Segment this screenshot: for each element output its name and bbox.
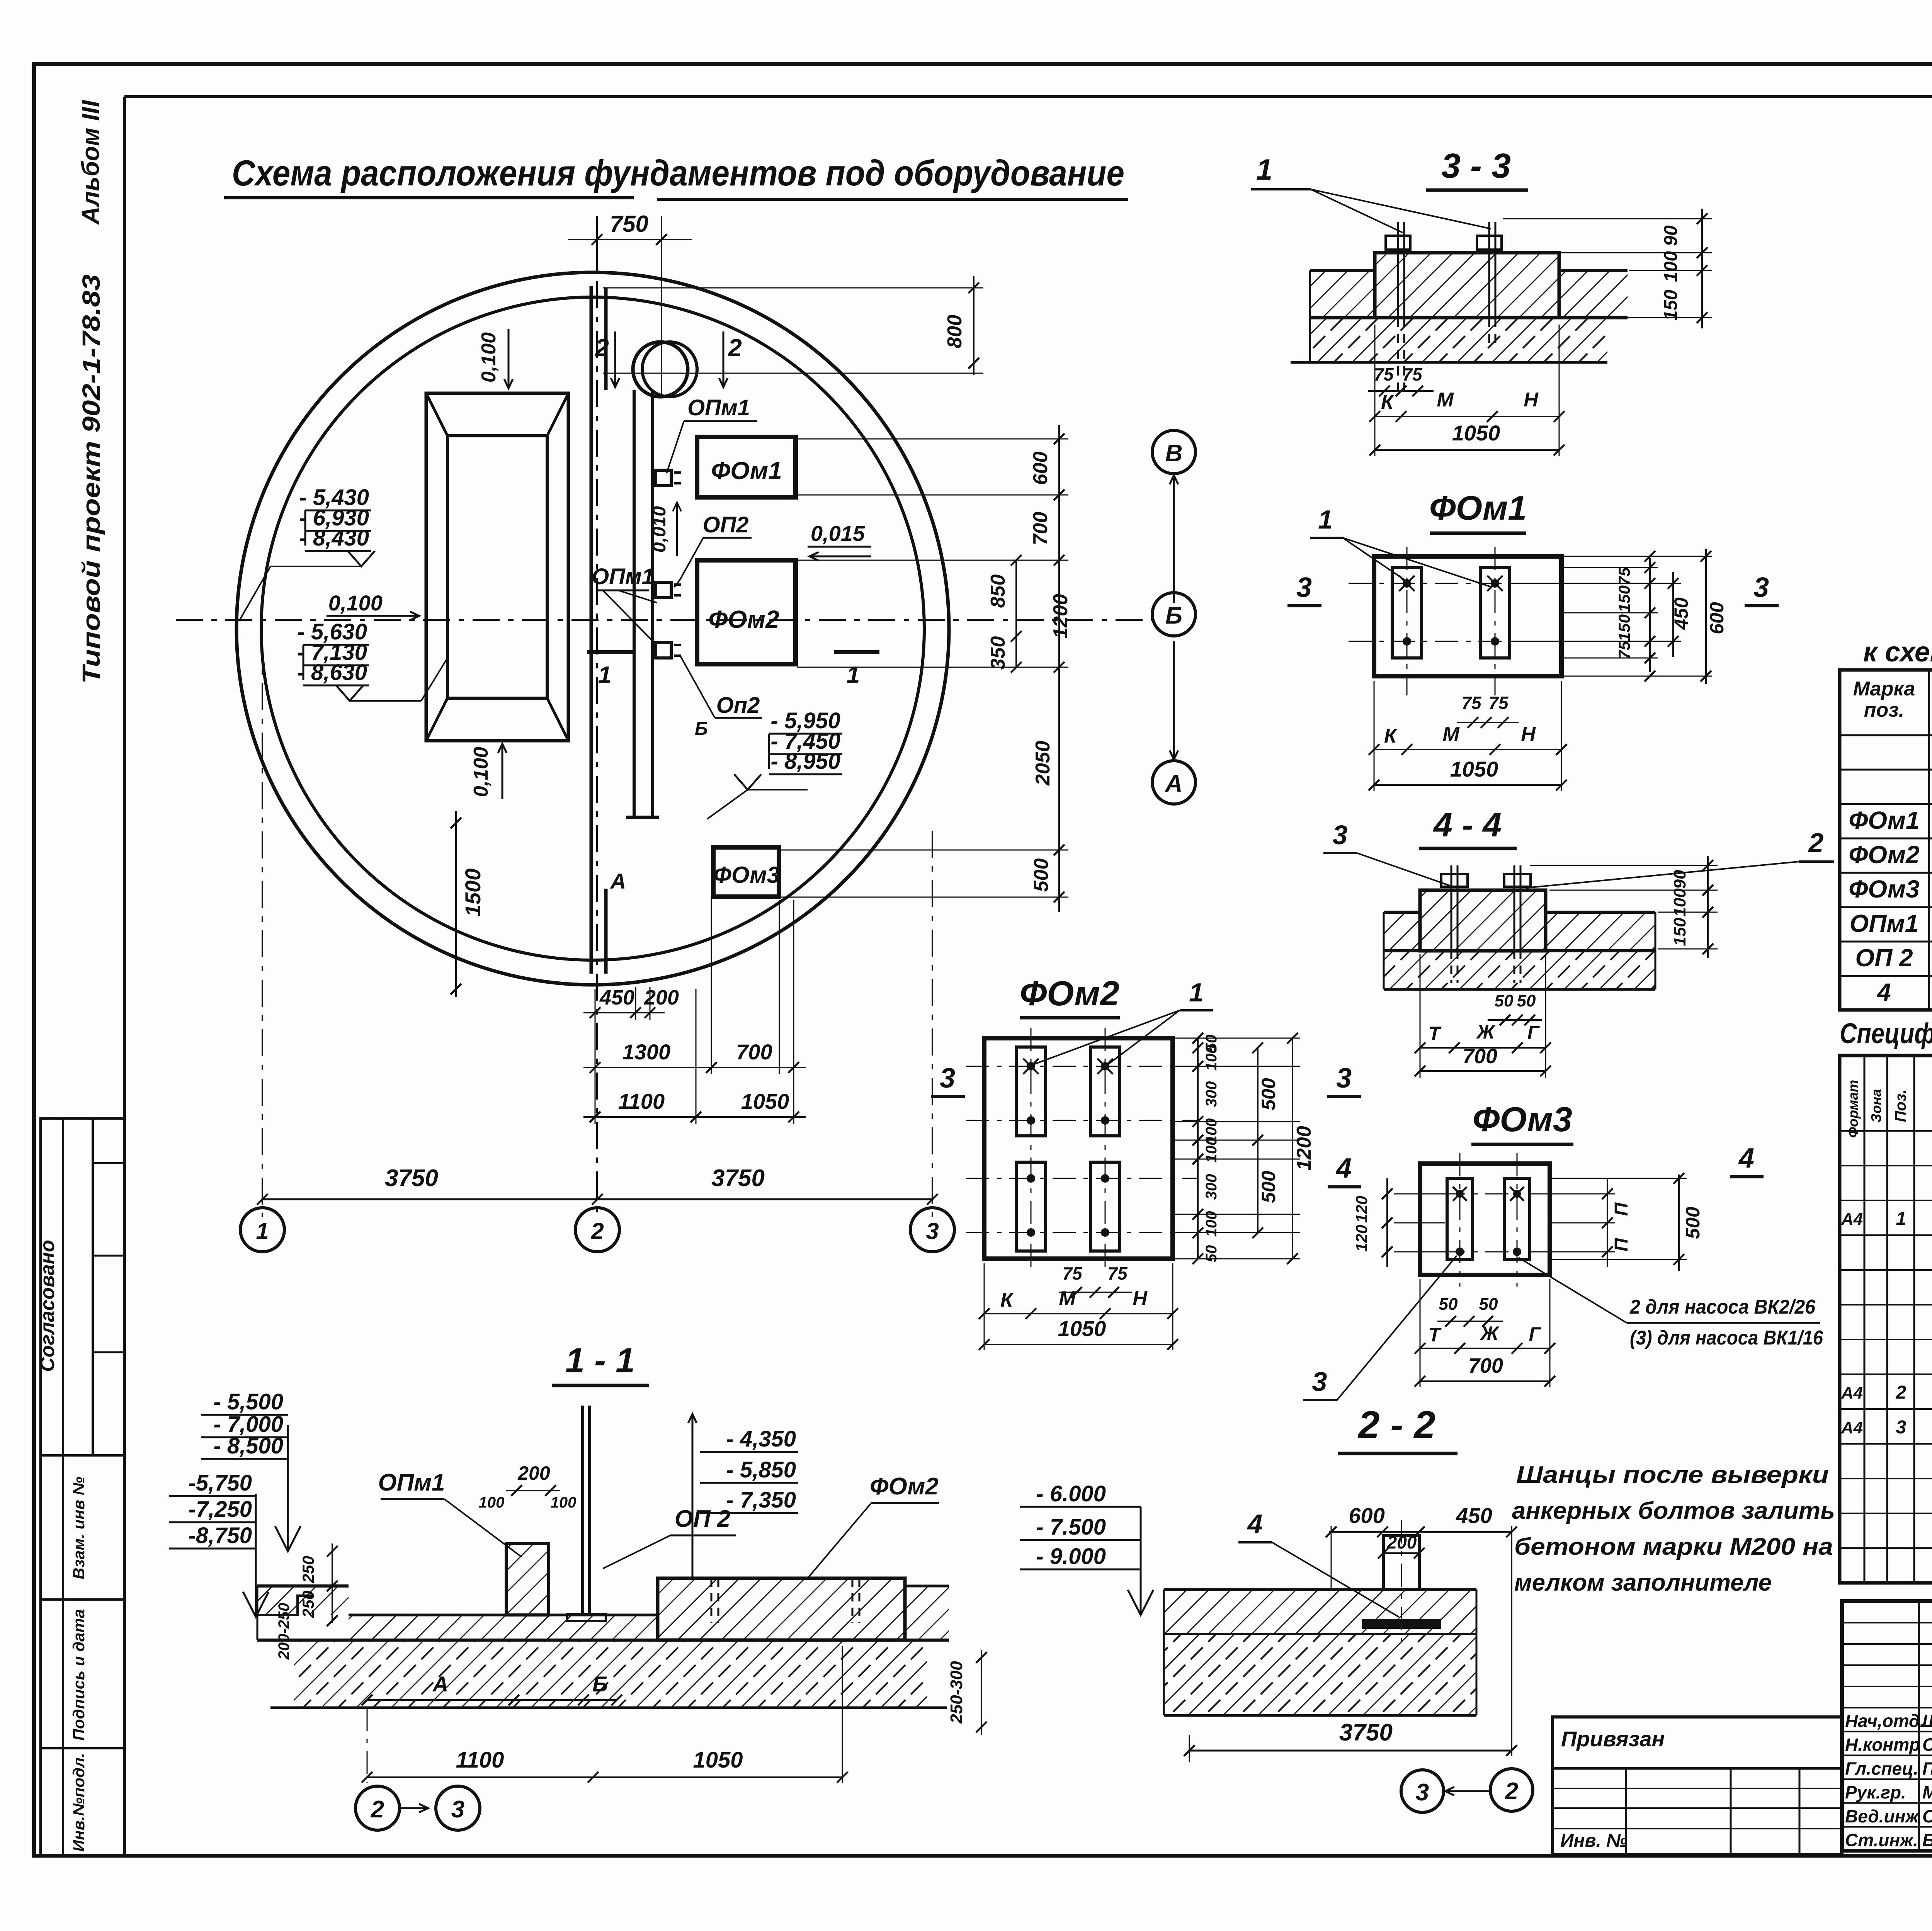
stamp left columns <box>1918 1601 1920 1851</box>
svg-text:150: 150 <box>1661 290 1681 321</box>
stamp frame <box>1842 1601 1932 1851</box>
svg-text:ОПм1: ОПм1 <box>592 564 654 589</box>
svg-text:Марка: Марка <box>1853 678 1915 700</box>
svg-text:0,015: 0,015 <box>811 521 865 546</box>
svg-text:1050: 1050 <box>741 1089 789 1113</box>
svg-text:ФОм1: ФОм1 <box>1849 806 1919 834</box>
svg-text:75: 75 <box>1062 1263 1083 1283</box>
svg-text:200: 200 <box>1387 1532 1417 1552</box>
svg-text:Болотинская: Болотинская <box>1922 1830 1932 1850</box>
svg-text:Б: Б <box>1165 602 1182 629</box>
svg-text:- 5,500: - 5,500 <box>213 1389 283 1414</box>
section 2-2 slab <box>1164 1589 1476 1634</box>
svg-text:- 7,350: - 7,350 <box>726 1487 796 1513</box>
svg-text:Гл.спец.: Гл.спец. <box>1845 1758 1918 1778</box>
grid bubble 1 <box>240 1208 284 1252</box>
svg-text:50: 50 <box>1439 1295 1458 1314</box>
axis bubble V <box>1152 430 1196 474</box>
grid bubble 3 <box>910 1208 954 1252</box>
svg-text:Взам. инв №: Взам. инв № <box>70 1477 88 1579</box>
section 3-3 lower band <box>1310 318 1607 362</box>
svg-text:В: В <box>1165 440 1183 467</box>
svg-text:- 8,630: - 8,630 <box>297 660 367 685</box>
svg-text:Г: Г <box>1527 1022 1540 1044</box>
fom2 centerlines <box>966 1066 1198 1067</box>
svg-text:Оп2: Оп2 <box>716 693 760 718</box>
fom3 left dims 120 120 <box>1386 1178 1388 1267</box>
section 2-2 dim 3750 <box>1189 1750 1512 1752</box>
svg-text:0,100: 0,100 <box>328 591 383 615</box>
fom2 dim extensions <box>1175 1038 1300 1039</box>
fom1 right dims <box>1649 558 1651 672</box>
bottom dim extension verticals <box>595 989 596 1124</box>
svg-text:Инв.№подл.: Инв.№подл. <box>70 1753 88 1852</box>
svg-text:ФОм1: ФОм1 <box>1429 489 1527 527</box>
svg-text:Подпись и дата: Подпись и дата <box>70 1609 88 1741</box>
svg-text:3: 3 <box>1896 1417 1906 1438</box>
svg-text:2: 2 <box>590 1218 604 1244</box>
svg-text:600: 600 <box>1349 1503 1384 1528</box>
svg-text:200-250: 200-250 <box>276 1603 293 1660</box>
right dim sub chain 850 350 <box>1015 560 1017 667</box>
svg-text:-5,750: -5,750 <box>189 1470 252 1496</box>
svg-text:Н: Н <box>1524 389 1539 411</box>
svg-text:3: 3 <box>926 1218 939 1244</box>
svg-text:А4: А4 <box>1841 1418 1863 1437</box>
plan axis3 vertical centerline <box>932 831 933 1217</box>
svg-text:700: 700 <box>736 1040 772 1064</box>
svg-text:ФОм2: ФОм2 <box>1849 841 1919 869</box>
svg-text:Г: Г <box>1529 1323 1542 1345</box>
section 4-4 bolts <box>1451 865 1452 951</box>
svg-text:120: 120 <box>1352 1196 1371 1223</box>
svg-text:150: 150 <box>1615 585 1633 612</box>
svg-text:Сокольская: Сокольская <box>1922 1735 1932 1755</box>
plan pit outer rect <box>426 393 568 741</box>
fom2 plan rect <box>984 1038 1173 1259</box>
fom1 plan bolts <box>1403 579 1411 588</box>
svg-text:- 8,500: - 8,500 <box>213 1433 283 1458</box>
margin stamp cells box <box>41 1118 124 1855</box>
svg-text:850: 850 <box>987 575 1009 608</box>
svg-text:150: 150 <box>1615 614 1633 641</box>
section 1-1 left vertical dims <box>332 1543 333 1623</box>
section 1-1 opm1 pedestal <box>506 1543 549 1615</box>
inner frame left vertical <box>123 97 126 1855</box>
fom1 plan rect <box>1374 556 1561 676</box>
svg-text:Однорал: Однорал <box>1922 1806 1932 1826</box>
svg-text:ОП2: ОП2 <box>702 512 748 537</box>
svg-text:3: 3 <box>1296 572 1312 603</box>
svg-text:Альбом III: Альбом III <box>77 100 104 225</box>
svg-text:1300: 1300 <box>622 1040 671 1064</box>
svg-text:А4: А4 <box>1841 1210 1863 1229</box>
svg-text:1: 1 <box>1256 153 1272 186</box>
svg-text:- 4,350: - 4,350 <box>726 1426 796 1452</box>
svg-text:1100: 1100 <box>618 1089 665 1113</box>
fom3 plan rect <box>1420 1164 1550 1275</box>
bottom dims 450 200 <box>583 1012 665 1013</box>
svg-text:2: 2 <box>1505 1778 1518 1805</box>
svg-text:1: 1 <box>1189 978 1204 1007</box>
svg-text:750: 750 <box>610 211 648 237</box>
svg-text:Ж: Ж <box>1480 1322 1500 1344</box>
plan pit inner rect <box>447 436 547 698</box>
fom3 centerlines <box>1399 1193 1584 1195</box>
section cut 1-1 marks <box>587 650 633 654</box>
plan central wall <box>590 286 593 974</box>
fom2 right dim chain small <box>1197 1038 1199 1259</box>
svg-text:ОП 2: ОП 2 <box>675 1506 731 1532</box>
grid dim 3750 3750 <box>262 1198 932 1200</box>
svg-text:-7,250: -7,250 <box>189 1497 252 1522</box>
svg-text:Ст.инж.: Ст.инж. <box>1845 1830 1918 1850</box>
margin stamp sublines <box>93 1162 124 1164</box>
section 1-1 bubbles 2 3 <box>355 1786 400 1830</box>
svg-text:1: 1 <box>598 662 611 688</box>
svg-text:50: 50 <box>1517 991 1536 1010</box>
section 3-3 anchor bolt left <box>1397 222 1399 318</box>
svg-text:Постников: Постников <box>1922 1758 1932 1778</box>
svg-text:450: 450 <box>599 986 634 1009</box>
svg-text:ОПм1: ОПм1 <box>1850 909 1919 937</box>
svg-text:1500: 1500 <box>461 869 485 917</box>
svg-text:3: 3 <box>451 1796 464 1823</box>
fom2 bolts <box>1027 1062 1035 1071</box>
plan hatch circle <box>633 342 688 397</box>
section 1-1 mid slab <box>349 1615 658 1640</box>
svg-text:1: 1 <box>256 1218 269 1244</box>
svg-text:А: А <box>610 869 626 893</box>
fom1 plan slot right <box>1480 568 1510 658</box>
svg-text:ОПм1: ОПм1 <box>378 1469 445 1496</box>
svg-text:П: П <box>1611 1237 1632 1251</box>
section 1-1 fom2 foundation <box>658 1578 905 1640</box>
axis line V-B-A <box>1173 475 1175 603</box>
svg-text:1: 1 <box>1896 1209 1906 1229</box>
plan axis1 vertical centerline <box>262 634 263 1217</box>
svg-text:ФОм2: ФОм2 <box>1020 974 1119 1013</box>
svg-text:ФОм2: ФОм2 <box>870 1473 939 1500</box>
svg-text:А: А <box>1165 770 1183 797</box>
svg-text:1200: 1200 <box>1293 1126 1315 1171</box>
svg-text:75: 75 <box>1402 364 1423 384</box>
svg-text:ФОм1: ФОм1 <box>711 457 782 484</box>
svg-text:2 для насоса ВК2/26: 2 для насоса ВК2/26 <box>1629 1296 1816 1318</box>
svg-text:П: П <box>1611 1202 1632 1216</box>
svg-text:мелком заполнителе: мелком заполнителе <box>1514 1569 1772 1596</box>
section 2-2 dims 600 450 200 <box>1329 1531 1512 1533</box>
svg-text:800: 800 <box>944 315 966 348</box>
svg-text:90: 90 <box>1661 225 1681 246</box>
svg-text:1200: 1200 <box>1049 594 1072 639</box>
section 4-4 block <box>1420 890 1546 951</box>
svg-text:(3) для насоса ВК1/16: (3) для насоса ВК1/16 <box>1630 1327 1823 1349</box>
section 3-3 foundation block <box>1375 253 1559 318</box>
section 4-4 slab <box>1384 911 1420 914</box>
fom1 plan centerlines <box>1349 583 1588 584</box>
svg-text:Привязан: Привязан <box>1561 1727 1665 1751</box>
svg-text:3: 3 <box>1333 820 1348 850</box>
svg-text:Нач,отд.: Нач,отд. <box>1845 1711 1925 1731</box>
svg-text:75: 75 <box>1488 693 1509 713</box>
svg-text:Рук.гр.: Рук.гр. <box>1845 1782 1906 1802</box>
svg-text:ОП 2: ОП 2 <box>1855 944 1913 972</box>
plan outer circle <box>236 272 949 985</box>
svg-text:ОПм1: ОПм1 <box>687 395 750 420</box>
svg-text:бетоном марки М200 на: бетоном марки М200 на <box>1514 1533 1833 1560</box>
svg-text:К: К <box>1381 391 1395 413</box>
svg-text:3: 3 <box>1336 1063 1352 1094</box>
svg-text:300: 300 <box>1203 1081 1220 1107</box>
svg-text:Спецификация фундаментов ФОм1-: Спецификация фундаментов ФОм1- ФОм3, ОПм… <box>1840 1017 1932 1049</box>
svg-text:поз.: поз. <box>1864 699 1905 721</box>
svg-text:3: 3 <box>1416 1779 1429 1806</box>
svg-text:200: 200 <box>644 986 679 1009</box>
section 1-1 left floor <box>257 1586 349 1615</box>
svg-text:0,100: 0,100 <box>470 747 492 797</box>
svg-text:90: 90 <box>1670 870 1689 889</box>
svg-text:50: 50 <box>1203 1245 1220 1263</box>
svg-text:4 - 4: 4 - 4 <box>1433 806 1502 844</box>
svg-text:50: 50 <box>1495 991 1514 1010</box>
svg-text:Т: Т <box>1429 1324 1442 1346</box>
svg-text:700: 700 <box>1029 512 1052 546</box>
svg-text:500: 500 <box>1258 1078 1279 1110</box>
svg-text:4: 4 <box>1247 1509 1263 1539</box>
plan inner circle <box>261 297 924 960</box>
svg-text:500: 500 <box>1258 1171 1279 1203</box>
svg-text:3750: 3750 <box>385 1165 438 1192</box>
svg-text:100: 100 <box>479 1494 505 1511</box>
plan monorail strip <box>633 390 636 817</box>
fom3 bolts <box>1456 1248 1464 1256</box>
svg-text:100: 100 <box>551 1494 577 1511</box>
fom2 rect in plan <box>697 560 796 664</box>
svg-text:Схема расположения фундамент: Схема расположения фундаментов под обору… <box>232 153 1124 193</box>
svg-text:Согласовано: Согласовано <box>36 1240 59 1372</box>
svg-text:100: 100 <box>1661 251 1681 282</box>
svg-text:150: 150 <box>1670 918 1689 946</box>
svg-text:3750: 3750 <box>1339 1719 1393 1746</box>
svg-text:3: 3 <box>1753 572 1769 603</box>
svg-text:1050: 1050 <box>1450 757 1498 781</box>
svg-text:600: 600 <box>1029 452 1052 485</box>
svg-text:М: М <box>1059 1287 1076 1310</box>
svg-text:М: М <box>1442 723 1460 746</box>
svg-text:1100: 1100 <box>456 1747 504 1773</box>
svg-text:Формат: Формат <box>1845 1080 1861 1138</box>
svg-text:500: 500 <box>1682 1207 1704 1239</box>
section 1-1 wall <box>581 1406 584 1614</box>
svg-text:анкерных болтов залить: анкерных болтов залить <box>1512 1498 1835 1524</box>
svg-text:- 8,950: - 8,950 <box>770 749 840 774</box>
axis bubble A <box>1152 761 1196 804</box>
svg-text:3: 3 <box>1312 1367 1327 1397</box>
section 2-2 anchor plate <box>1362 1619 1441 1629</box>
svg-text:75: 75 <box>1107 1263 1128 1283</box>
dim 800 chain <box>973 276 975 375</box>
stamp left rows upper <box>1842 1622 1932 1623</box>
spec2 grid <box>1864 1056 1866 1583</box>
svg-text:- 7.500: - 7.500 <box>1036 1515 1106 1540</box>
svg-text:Н.контр: Н.контр <box>1845 1735 1920 1755</box>
svg-text:Н: Н <box>1133 1287 1148 1310</box>
svg-text:- 9.000: - 9.000 <box>1036 1544 1106 1569</box>
svg-text:- 8,430: - 8,430 <box>299 525 369 551</box>
svg-text:Поз.: Поз. <box>1892 1090 1909 1122</box>
axis bubble B <box>1152 593 1196 636</box>
svg-text:75: 75 <box>1615 567 1633 585</box>
dim 1500 rotated <box>455 811 457 997</box>
svg-text:0,100: 0,100 <box>478 332 500 382</box>
spec2 frame <box>1840 1056 1932 1583</box>
svg-text:К: К <box>1384 725 1398 747</box>
svg-text:4: 4 <box>1335 1153 1352 1184</box>
svg-text:200: 200 <box>517 1462 550 1484</box>
section 1-1 bottom dims <box>367 1699 617 1701</box>
svg-text:2: 2 <box>595 334 609 362</box>
svg-text:4: 4 <box>1738 1143 1754 1174</box>
svg-text:Ж: Ж <box>1476 1021 1496 1043</box>
svg-text:к схеме расположения фундамент: к схеме расположения фундаментов под обо… <box>1863 637 1932 668</box>
svg-text:2: 2 <box>371 1796 384 1823</box>
svg-text:250: 250 <box>299 1591 317 1618</box>
section 1-1 lower band <box>294 1640 927 1708</box>
svg-text:- 6.000: - 6.000 <box>1036 1481 1106 1506</box>
fom3 slots <box>1447 1178 1473 1260</box>
spec1 grid <box>1928 670 1930 1010</box>
svg-text:300: 300 <box>1203 1174 1220 1200</box>
op support squares <box>656 470 671 486</box>
fom3 right dims P P 500 <box>1607 1178 1608 1267</box>
svg-text:700: 700 <box>1468 1354 1503 1377</box>
svg-text:2: 2 <box>1896 1382 1906 1403</box>
section 3-3 floor right <box>1559 269 1628 272</box>
plan horizontal centerline <box>176 619 1153 621</box>
svg-text:Зона: Зона <box>1868 1089 1884 1123</box>
plan pit bevels <box>426 393 447 436</box>
svg-text:450: 450 <box>1670 597 1692 630</box>
svg-text:250: 250 <box>299 1556 317 1583</box>
svg-text:250-300: 250-300 <box>947 1661 966 1724</box>
svg-text:Мазалова: Мазалова <box>1922 1782 1932 1802</box>
section 2-2 right extension vertical <box>1511 1526 1512 1756</box>
fom2 right dim 1200 <box>1292 1038 1293 1259</box>
svg-text:Б: Б <box>695 719 708 739</box>
svg-text:Типовой проект 902-1-78.83: Типовой проект 902-1-78.83 <box>77 274 105 684</box>
svg-text:0,010: 0,010 <box>649 506 670 552</box>
fom1 rect in plan <box>697 437 796 497</box>
svg-text:Вед.инж: Вед.инж <box>1845 1806 1919 1826</box>
svg-text:К: К <box>1000 1289 1014 1311</box>
svg-text:2: 2 <box>728 334 742 362</box>
section 3-3 floor left <box>1310 269 1375 272</box>
section 3-3 anchor bolt right <box>1488 222 1490 318</box>
svg-text:- 5,850: - 5,850 <box>726 1457 796 1482</box>
section 1-1 right floor <box>905 1585 949 1588</box>
section 4-4 lower band <box>1384 951 1655 989</box>
svg-text:600: 600 <box>1706 602 1728 634</box>
svg-text:3750: 3750 <box>711 1165 765 1192</box>
svg-text:75: 75 <box>1615 641 1633 659</box>
svg-text:1050: 1050 <box>1058 1316 1106 1341</box>
svg-text:Шейко: Шейко <box>1922 1711 1932 1731</box>
svg-text:А4: А4 <box>1841 1384 1863 1402</box>
svg-text:3: 3 <box>940 1063 955 1094</box>
svg-text:700: 700 <box>1463 1045 1497 1068</box>
svg-text:3 - 3: 3 - 3 <box>1441 147 1511 185</box>
svg-text:2: 2 <box>1808 828 1824 858</box>
section 2-2 lower band <box>1164 1634 1476 1715</box>
svg-text:1050: 1050 <box>693 1747 743 1773</box>
svg-text:ФОм3: ФОм3 <box>713 862 780 888</box>
section 2-2 pedestal <box>1383 1536 1419 1589</box>
svg-text:ФОм3: ФОм3 <box>1473 1100 1572 1139</box>
fom2 slots <box>1016 1047 1046 1136</box>
svg-text:75: 75 <box>1374 364 1394 384</box>
section 3-3 right dims <box>1701 209 1703 328</box>
svg-text:1: 1 <box>1318 505 1333 534</box>
svg-text:1050: 1050 <box>1452 421 1500 445</box>
svg-text:50: 50 <box>1479 1295 1498 1314</box>
svg-text:2 - 2: 2 - 2 <box>1357 1403 1435 1447</box>
svg-text:-8,750: -8,750 <box>189 1523 252 1548</box>
privyazan box <box>1553 1717 1842 1855</box>
spec1 frame <box>1840 670 1932 1010</box>
svg-text:2050: 2050 <box>1032 741 1054 786</box>
svg-text:А: А <box>432 1672 448 1696</box>
fom3 rect in plan <box>713 847 779 897</box>
svg-text:350: 350 <box>987 636 1009 670</box>
svg-text:1 - 1: 1 - 1 <box>565 1341 635 1380</box>
svg-text:75: 75 <box>1461 693 1482 713</box>
svg-text:4: 4 <box>1876 978 1891 1006</box>
section 3-3 slab bottom line <box>1310 316 1628 320</box>
svg-text:М: М <box>1437 389 1454 411</box>
dim 750 top <box>596 216 598 270</box>
svg-text:Шанцы после выверки: Шанцы после выверки <box>1516 1462 1829 1488</box>
svg-text:Инв. №: Инв. № <box>1560 1831 1628 1851</box>
svg-text:1: 1 <box>847 662 860 688</box>
bottom dims 1300 700 <box>583 1067 806 1068</box>
svg-text:120: 120 <box>1352 1225 1371 1252</box>
svg-text:450: 450 <box>1456 1503 1492 1528</box>
fom2 right dim 500 500 <box>1257 1048 1259 1233</box>
svg-text:ФОм3: ФОм3 <box>1849 875 1919 903</box>
right dimension chain <box>1058 425 1060 912</box>
inner frame top line <box>124 95 1932 98</box>
bottom dims 1100 1050 <box>583 1116 806 1118</box>
right dim extension lines <box>797 439 1068 440</box>
svg-text:Т: Т <box>1429 1023 1442 1044</box>
section 4-4 right dims <box>1707 856 1709 958</box>
svg-text:500: 500 <box>1030 858 1053 892</box>
grid bubble 2 <box>575 1208 619 1252</box>
plan axis2 vertical centerline <box>596 232 598 1217</box>
svg-text:Н: Н <box>1521 723 1536 746</box>
fom1 plan slot left <box>1392 568 1422 658</box>
svg-text:Б: Б <box>592 1672 608 1696</box>
section 2-2 bubbles 3 2 <box>1401 1770 1444 1812</box>
